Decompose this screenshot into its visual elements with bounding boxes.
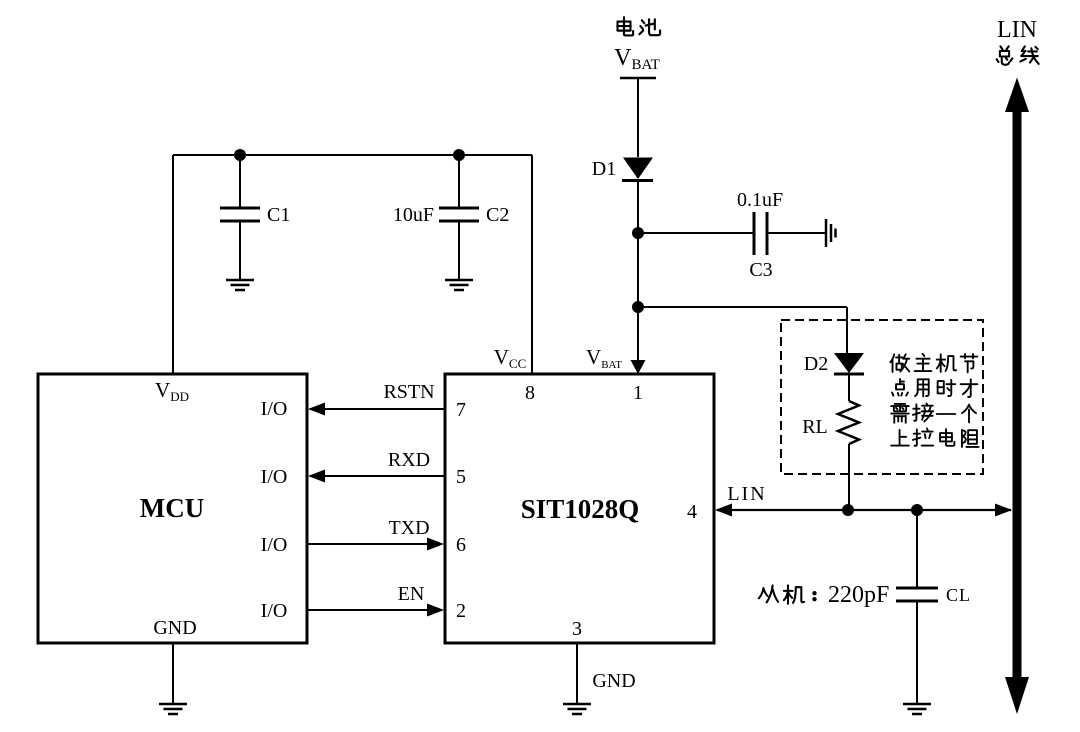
svg-text:I/O: I/O: [261, 600, 288, 622]
wire: pull-up branch vertical into dashed box: [846, 307, 848, 354]
svg-text:RXD: RXD: [388, 449, 430, 471]
diode D1: [622, 158, 653, 181]
node: junction dot at C2 tap: [453, 149, 465, 161]
svg-text:C2: C2: [486, 204, 509, 226]
ground (SIT1028Q): [563, 704, 591, 714]
wire RXD: [310, 475, 445, 477]
capacitor C3: [754, 212, 767, 255]
wire: VBAT to D1: [637, 78, 639, 157]
svg-text:GND: GND: [153, 617, 196, 639]
diode D2: [834, 353, 864, 374]
wire RSTN: [310, 408, 445, 410]
wire: CL top lead: [916, 510, 918, 588]
svg-text:EN: EN: [398, 583, 425, 605]
node: junction dot at C1 tap: [234, 149, 246, 161]
wire: C3 to ground: [768, 232, 825, 234]
wire: VCC vertical to SIT1028Q pin 8: [531, 155, 533, 374]
ground (C2): [445, 280, 473, 290]
note text 点用时才: [892, 379, 977, 397]
ground (C1): [226, 280, 254, 290]
arrowhead LIN into SIT1028Q pin 4: [715, 504, 732, 517]
dashed box (master-node pull-up note): [781, 320, 983, 474]
ground (CL): [903, 704, 931, 714]
wire: C1 bottom lead: [239, 221, 241, 279]
wire TXD: [307, 543, 442, 545]
svg-text:6: 6: [456, 534, 466, 556]
svg-text:D1: D1: [592, 158, 616, 180]
svg-text:TXD: TXD: [388, 517, 429, 539]
svg-text:GND: GND: [592, 670, 635, 692]
resistor RL: [838, 401, 859, 444]
wire: C2 top lead: [458, 155, 460, 208]
svg-text:D2: D2: [804, 353, 828, 375]
arrowhead RXD into MCU: [308, 470, 325, 483]
wire: to C3: [638, 232, 753, 234]
note text 上拉电阻: [891, 428, 978, 446]
svg-text:C3: C3: [749, 259, 772, 281]
arrowhead VBAT into pin 1: [631, 360, 646, 374]
svg-text:10uF: 10uF: [393, 204, 434, 226]
svg-text:1: 1: [633, 382, 643, 404]
label 电池 (battery): [618, 17, 661, 35]
svg-text:2: 2: [456, 600, 466, 622]
svg-text:RSTN: RSTN: [383, 381, 434, 403]
svg-text:0.1uF: 0.1uF: [737, 189, 783, 211]
arrowhead LIN to bus: [995, 504, 1012, 517]
battery terminal bar: [620, 77, 656, 80]
wire: D2 to RL: [848, 374, 850, 401]
note text 需接一个: [891, 403, 976, 422]
wire: pull-up branch horizontal: [638, 306, 847, 308]
svg-text:5: 5: [456, 466, 466, 488]
LIN bus line: [1013, 110, 1022, 678]
capacitor CL: [896, 588, 938, 601]
svg-text:LIN: LIN: [727, 483, 766, 505]
wire EN: [307, 609, 442, 611]
svg-text:3: 3: [572, 618, 582, 640]
note text 做主机节: [890, 354, 977, 372]
wire: SIT GND lead: [576, 643, 578, 703]
svg-text:CL: CL: [946, 585, 971, 605]
svg-text:LIN: LIN: [997, 17, 1037, 43]
svg-text:8: 8: [525, 382, 535, 404]
node: junction dot at pull-up tap: [632, 301, 644, 313]
wire: MCU GND lead: [172, 643, 174, 703]
node: junction dot RL/LIN: [842, 504, 854, 516]
svg-text:I/O: I/O: [261, 398, 288, 420]
wire: CL bottom lead: [916, 601, 918, 703]
arrowhead bus up: [1005, 78, 1029, 113]
svg-text:220pF: 220pF: [828, 582, 889, 608]
arrowhead RSTN into MCU: [308, 403, 325, 416]
svg-text:C1: C1: [267, 204, 290, 226]
capacitor C1: [220, 208, 260, 221]
svg-text:SIT1028Q: SIT1028Q: [521, 494, 640, 524]
SIT1028Q box U1: [445, 374, 714, 643]
arrowhead bus down: [1005, 677, 1029, 714]
label 总线 (bus): [997, 46, 1039, 64]
label 从机:: [759, 585, 816, 603]
ground (C3, rotated): [826, 219, 836, 247]
svg-text:I/O: I/O: [261, 534, 288, 556]
svg-text:MCU: MCU: [140, 493, 204, 523]
svg-text:I/O: I/O: [261, 466, 288, 488]
wire: VDD vertical to MCU: [172, 155, 174, 374]
wire: C1 top lead: [239, 155, 241, 208]
svg-text:7: 7: [456, 399, 466, 421]
wire: RL to LIN: [848, 444, 850, 510]
node: junction dot at C3 tap: [632, 227, 644, 239]
wire: VDD/VCC top rail: [173, 154, 532, 156]
wire LIN: [717, 509, 1011, 511]
MCU box: [38, 374, 307, 643]
wire: C2 bottom lead: [458, 221, 460, 279]
ground (MCU): [159, 704, 187, 714]
arrowhead EN into SIT1028Q: [427, 604, 444, 617]
arrowhead TXD into SIT1028Q: [427, 538, 444, 551]
node: junction dot CL/LIN: [911, 504, 923, 516]
svg-text:RL: RL: [802, 416, 828, 438]
svg-text:4: 4: [687, 501, 697, 523]
wire: D1 to SIT pin 1: [637, 179, 639, 371]
capacitor C2: [439, 208, 479, 221]
